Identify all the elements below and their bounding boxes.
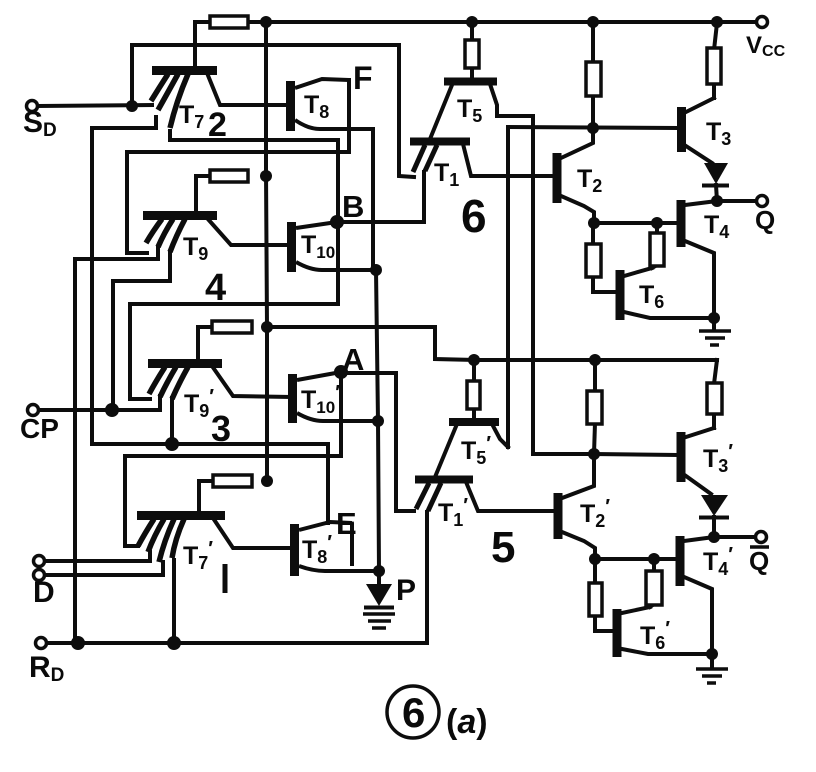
transistor T1p — [415, 480, 473, 512]
wire R9p leads — [652, 559, 656, 571]
caption figure 6 — [387, 686, 488, 741]
wire T7p emitter4 drop — [172, 560, 176, 643]
wire T8 emitter drop — [371, 129, 375, 270]
wire CP input — [39, 396, 160, 410]
transistor T9 — [143, 216, 217, 253]
wire node A drop and feedback to T7p emitter — [125, 372, 341, 546]
svg-text:2: 2 — [208, 106, 227, 144]
wire lower rail — [474, 358, 717, 362]
wire D input upper — [45, 552, 150, 561]
transistor T4 — [677, 200, 686, 247]
wire T2 collector — [561, 128, 593, 158]
wire T2p collector — [562, 454, 594, 498]
wire common emitter column to diode P — [376, 270, 379, 571]
wire diode P stem — [377, 571, 381, 584]
wire T4 collector — [685, 201, 717, 205]
wire cross column left — [506, 127, 510, 447]
wire T5p collector hook — [492, 424, 508, 447]
wire T5 emitter — [430, 85, 452, 139]
wire T6p collector — [622, 607, 650, 613]
diode D2 — [699, 495, 729, 518]
resistor R8 — [586, 244, 601, 277]
wire R3 left lead — [198, 327, 212, 360]
transistor T6 — [616, 270, 625, 320]
svg-text:F: F — [353, 60, 373, 96]
svg-text:CP: CP — [20, 413, 59, 444]
wire T5p emitter — [435, 424, 457, 477]
wire Vcc rail — [196, 20, 757, 24]
svg-text:(a): (a) — [446, 703, 488, 741]
transistor T5 — [444, 78, 497, 86]
ground P — [363, 614, 395, 628]
terminal Vcc — [757, 17, 768, 28]
wire R6 leads — [591, 23, 595, 64]
svg-text:E: E — [336, 506, 357, 541]
wire T5p resistor to base — [472, 408, 476, 419]
transistor T10 — [258, 222, 375, 272]
wire R6p leads — [593, 360, 597, 392]
svg-text:4: 4 — [205, 267, 226, 309]
wire R2 left lead — [196, 176, 210, 212]
resistor R7p — [707, 383, 722, 414]
terminal D lower — [34, 570, 45, 581]
wire T5 resistor to base — [470, 66, 474, 78]
transistor T3p — [677, 432, 686, 482]
wire node E run to T8p collector — [92, 444, 328, 523]
transistor T6p — [613, 609, 622, 657]
resistor R2 — [210, 170, 248, 182]
transistor T10p — [293, 372, 378, 423]
transistor T1 — [410, 142, 470, 173]
svg-text:D: D — [33, 576, 55, 609]
svg-text:3: 3 — [211, 408, 231, 449]
label gate number 1 — [223, 564, 228, 593]
wire node A right to T1p emitter — [341, 373, 414, 511]
wire node B to T1 emitter — [340, 172, 424, 222]
wire SD input — [38, 105, 152, 106]
resistor R6p — [587, 391, 602, 424]
wire T2 T3 base line — [508, 127, 677, 128]
wire T9p collector to T10p base — [212, 366, 290, 397]
wire T2p T3p base line — [594, 454, 676, 455]
transistor T8p — [295, 522, 380, 576]
wire node F drop — [347, 80, 351, 152]
wire T3 emitter to diode — [686, 146, 712, 163]
svg-text:A: A — [342, 342, 364, 377]
wire R1 left lead — [195, 22, 210, 67]
resistor R9 — [650, 233, 664, 266]
wire R7p leads — [714, 360, 717, 384]
transistor T4p — [676, 536, 685, 586]
wire Q output — [717, 199, 756, 203]
terminal Q — [757, 196, 768, 207]
wire T9 emitter3 to CP column — [113, 252, 170, 410]
transistor T9p — [148, 364, 222, 400]
terminal SD — [27, 101, 38, 112]
svg-text:Q: Q — [755, 205, 775, 235]
terminal Qbar — [756, 532, 767, 543]
resistor R3 — [212, 321, 252, 333]
wire T1p collector to T2p base — [466, 482, 554, 511]
resistor R9p — [646, 571, 662, 605]
wire T5 collector to cross column right — [490, 84, 594, 454]
wire R4 left lead — [199, 481, 213, 512]
resistor R8p — [589, 583, 602, 616]
wire T4 base line — [594, 221, 677, 225]
resistor R7 — [707, 48, 721, 84]
wire R9 leads — [655, 223, 659, 234]
wire T9 emitter2 to RD column — [75, 247, 158, 643]
wire T5 resistor feed — [470, 23, 474, 40]
wire Vcc feed column — [266, 22, 267, 481]
wire T7 emitter2 to node E — [92, 117, 156, 444]
wire R8 leads — [591, 223, 595, 245]
wire R8p leads — [593, 559, 597, 583]
wire T6 emitter — [624, 312, 714, 318]
wire T3p emitter to diode — [686, 476, 711, 494]
wire R3 to lower rail — [267, 327, 474, 360]
resistor R1 — [210, 16, 248, 28]
wire SD to gate6 — [132, 45, 414, 177]
wire T6 collector — [624, 268, 652, 276]
wire T1 collector to T2 base — [463, 144, 553, 176]
wire T3 collector — [686, 98, 714, 112]
transistor T2 — [553, 153, 562, 203]
wire node B feedback to T7 emitter — [170, 131, 338, 222]
wire node F to T9 emitter — [127, 152, 349, 253]
wire T4p collector — [684, 537, 714, 541]
svg-text:6: 6 — [461, 190, 487, 242]
wire T4p emitter — [684, 577, 712, 654]
diode D1 — [702, 163, 729, 186]
diode P — [364, 584, 394, 608]
ground G1 — [699, 331, 731, 345]
wire T9 collector to T10 base — [207, 218, 288, 245]
wire T4 emitter — [685, 241, 714, 318]
transistor T7 — [151, 71, 217, 129]
label Qbar — [749, 546, 769, 576]
wire node B to gate3 — [130, 222, 338, 399]
wire diode D1 to Q — [716, 185, 717, 201]
wire D input lower — [45, 562, 163, 575]
wire T2p emitter — [562, 532, 595, 559]
wire T7p collector to T8p base — [213, 518, 292, 548]
wire Qbar output — [714, 535, 755, 539]
terminal D upper — [34, 556, 45, 567]
wire T4p base line — [595, 557, 676, 561]
svg-text:Q: Q — [749, 546, 769, 576]
resistor R6 — [586, 62, 601, 96]
wire T3p collector — [686, 428, 714, 437]
wire RD rail — [47, 512, 427, 643]
ground G2 — [696, 669, 728, 683]
transistor T2p — [554, 493, 563, 539]
transistor T3 — [677, 107, 686, 152]
svg-text:6: 6 — [402, 689, 425, 736]
resistor R4 — [213, 475, 252, 487]
terminal RD — [36, 638, 47, 649]
transistor T7p — [137, 516, 225, 563]
wire T9p emitter3 drop — [170, 398, 174, 444]
wire diode D2 to Qbar — [712, 517, 716, 537]
wire T5p resistor feed — [472, 360, 476, 381]
transistor T5p — [449, 418, 499, 426]
svg-text:5: 5 — [491, 523, 515, 572]
transistor T8 — [291, 79, 374, 131]
wire ground2 stem — [710, 654, 714, 667]
svg-text:P: P — [396, 574, 416, 607]
terminal CP — [28, 405, 39, 416]
svg-text:B: B — [342, 189, 364, 224]
wire R7 leads — [714, 23, 717, 50]
resistor R5p — [467, 381, 480, 409]
wire T6p emitter — [622, 649, 712, 654]
wire T7 collector to T8 base — [207, 73, 288, 105]
wire ground1 stem — [712, 318, 716, 329]
wire T2 emitter — [561, 196, 594, 223]
resistor R5 — [465, 40, 479, 68]
